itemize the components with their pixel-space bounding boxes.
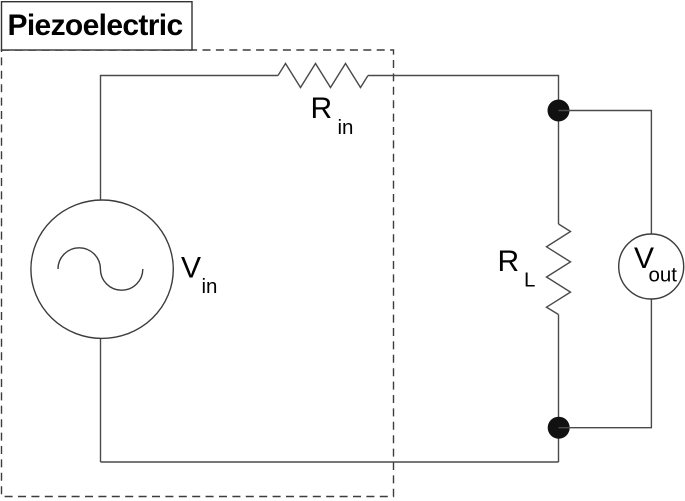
svg-text:in: in [338,116,354,139]
label R_L [498,245,536,291]
label box [2,2,193,50]
svg-text:out: out [649,264,678,287]
dashed box (piezoelectric model boundary) [2,50,394,497]
svg-text:L: L [524,269,535,292]
AC source sine symbol [58,248,143,290]
voltmeter U1 circle [619,234,684,299]
resistor R_in [278,64,368,88]
wire R_in right to node and down to R_L [368,76,559,225]
wire node A to voltmeter top [559,111,652,235]
svg-text:R: R [498,245,520,278]
wire R_L bottom to bottom rail [558,315,560,463]
AC source V1 circle [31,200,173,338]
wire voltmeter bottom to node B [559,299,652,428]
svg-text:V: V [181,251,201,284]
svg-text:R: R [311,92,333,125]
svg-text:Piezoelectric: Piezoelectric [8,9,183,42]
wire top-left (source top to R_in left) [101,76,279,201]
label V_out [634,242,677,287]
label V_in [181,251,217,298]
label R_in [311,92,354,139]
wire source bottom [100,338,102,462]
svg-text:in: in [202,275,218,298]
node B (bottom junction dot) [548,417,570,439]
resistor R_L [547,224,571,315]
bottom wire rail [101,461,559,463]
node A (top junction dot) [548,100,570,122]
